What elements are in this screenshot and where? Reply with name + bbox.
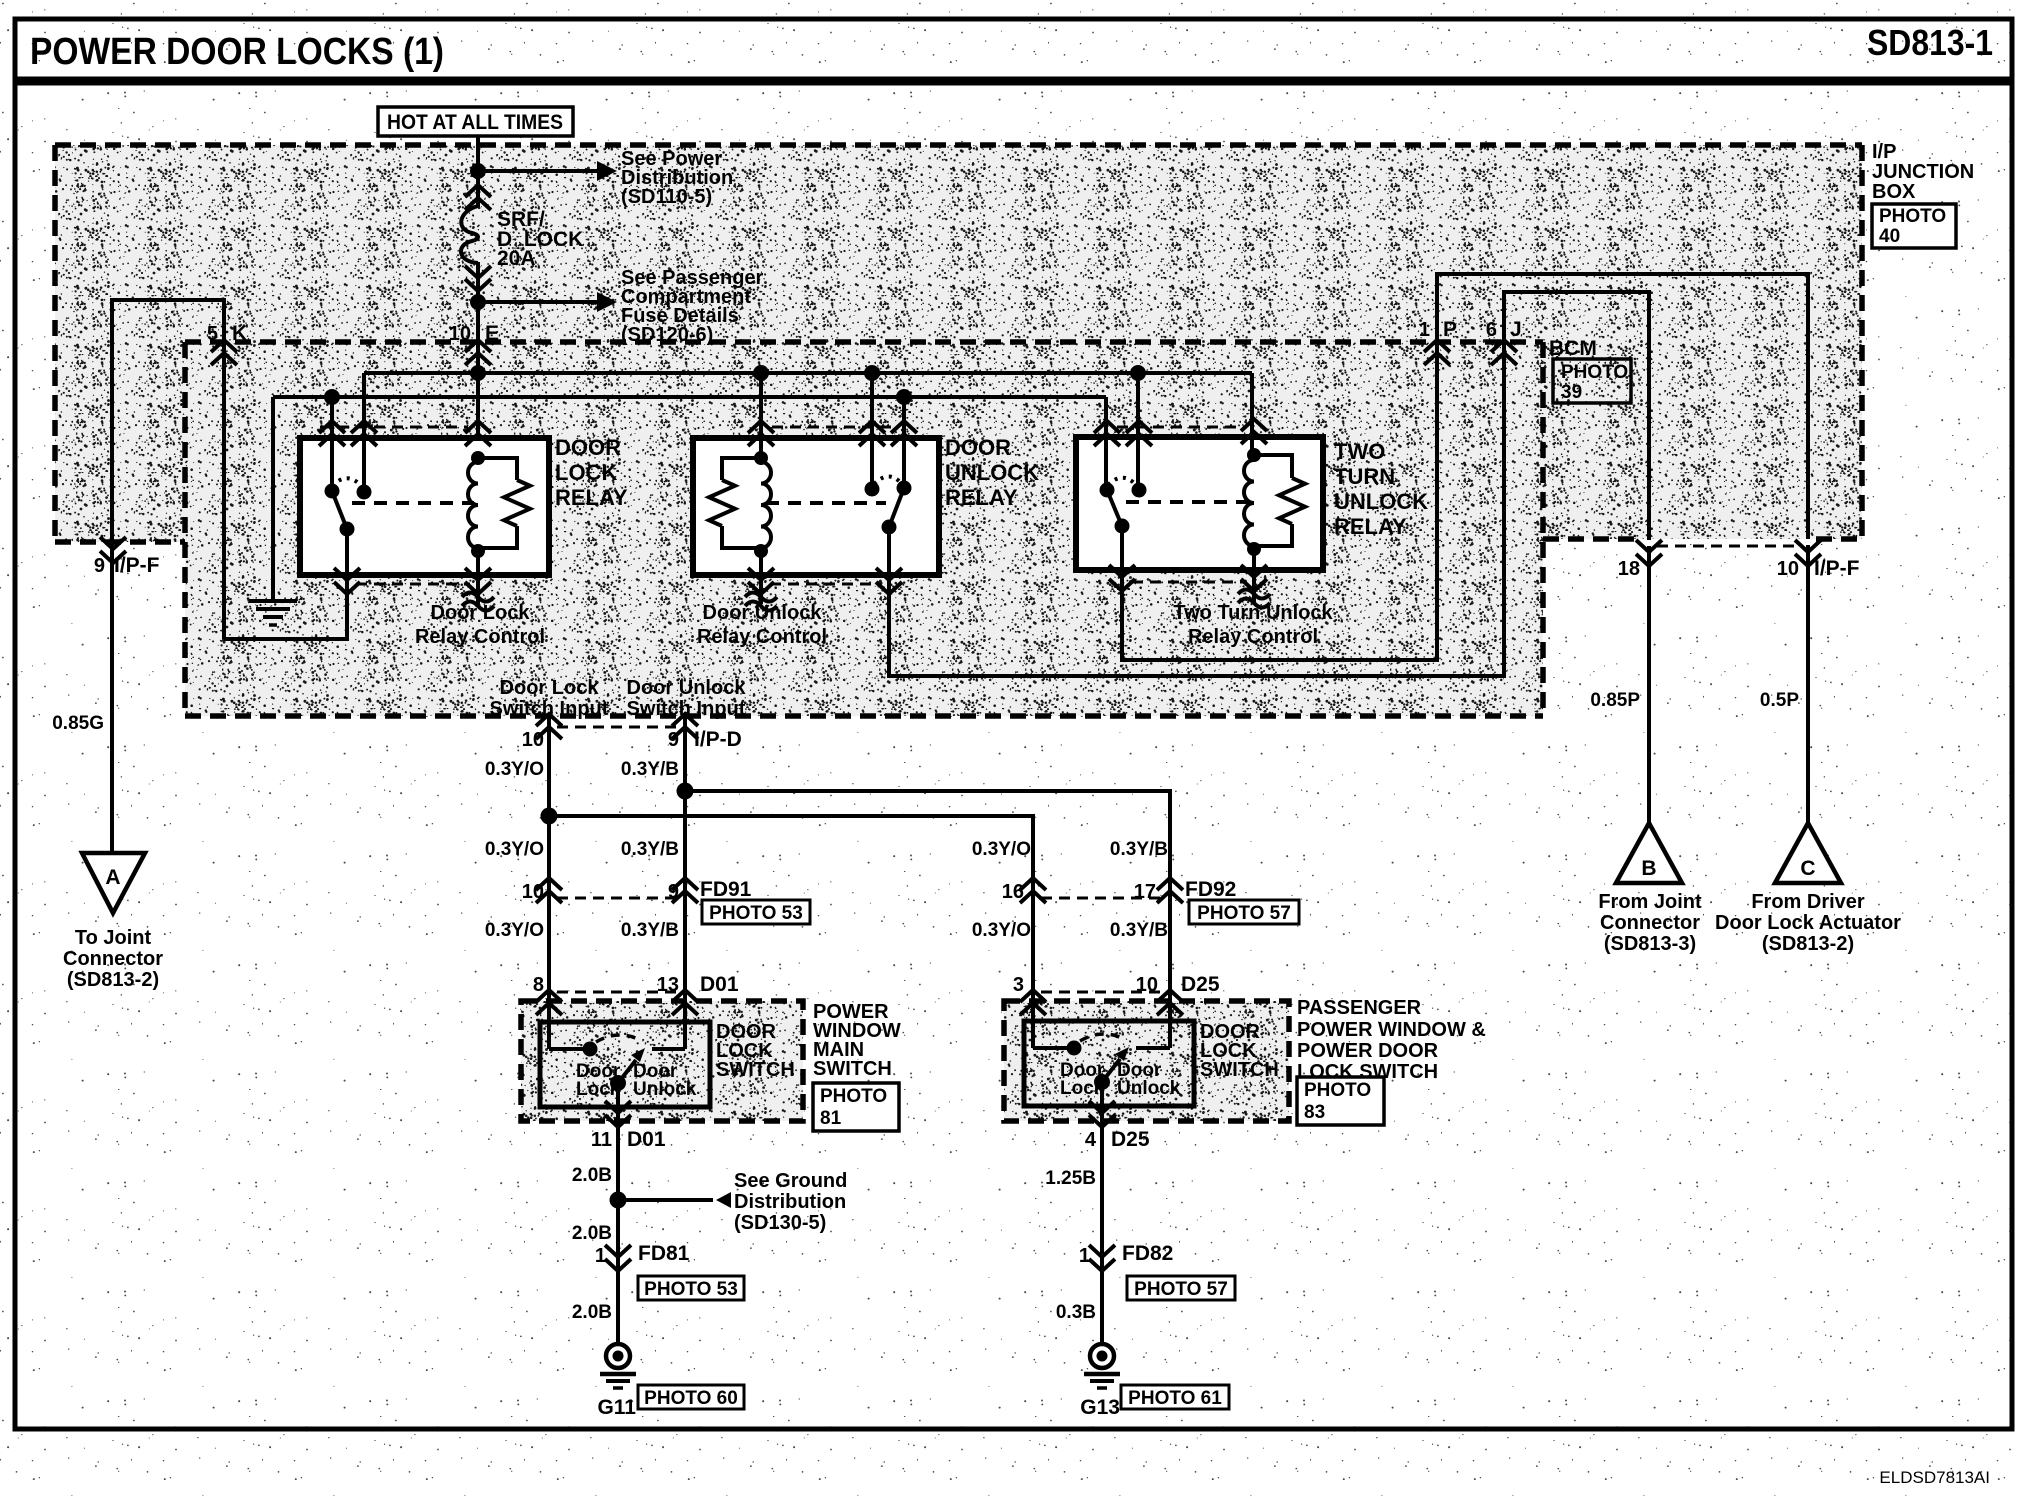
svg-text:To Joint: To Joint [75,927,152,949]
svg-text:G11: G11 [597,1396,636,1419]
svg-text:TWO: TWO [1334,439,1385,464]
svg-text:K: K [232,322,247,345]
svg-text:UNLOCK: UNLOCK [945,460,1039,485]
svg-text:9: 9 [668,881,679,903]
svg-text:0.3Y/B: 0.3Y/B [621,759,679,780]
svg-text:0.3Y/B: 0.3Y/B [1110,839,1168,860]
svg-text:Unlock: Unlock [633,1079,697,1100]
svg-text:Distribution: Distribution [734,1191,846,1213]
svg-text:SWITCH: SWITCH [1200,1059,1279,1081]
svg-text:2.0B: 2.0B [572,1223,612,1244]
svg-text:17: 17 [1134,881,1156,903]
svg-text:BOX: BOX [1872,181,1916,203]
svg-text:Relay Control: Relay Control [1188,626,1318,648]
svg-text:(SD813-2): (SD813-2) [67,969,159,991]
svg-text:J: J [1510,318,1522,341]
svg-text:RELAY: RELAY [945,485,1018,510]
svg-text:(SD110-5): (SD110-5) [621,186,712,208]
svg-text:B: B [1641,857,1656,880]
svg-text:DOOR: DOOR [945,435,1011,460]
svg-text:0.3Y/O: 0.3Y/O [485,759,544,780]
svg-text:D25: D25 [1181,973,1220,996]
svg-text:Connector: Connector [1600,912,1700,934]
svg-text:10: 10 [1777,558,1799,580]
svg-text:Relay Control: Relay Control [697,626,827,648]
svg-text:I/P-D: I/P-D [694,728,742,751]
svg-text:Connector: Connector [63,948,163,970]
svg-text:LOCK: LOCK [555,460,617,485]
svg-text:HOT AT ALL TIMES: HOT AT ALL TIMES [387,111,563,134]
svg-text:0.3Y/O: 0.3Y/O [972,839,1031,860]
svg-text:D01: D01 [700,973,739,996]
svg-text:I/P-F: I/P-F [114,554,160,577]
svg-text:Two Turn Unlock: Two Turn Unlock [1173,602,1333,624]
svg-text:0.85P: 0.85P [1590,690,1640,711]
svg-text:81: 81 [820,1108,842,1129]
svg-text:SWITCH: SWITCH [813,1058,892,1080]
svg-text:PHOTO 53: PHOTO 53 [709,903,803,924]
svg-text:P: P [1443,318,1457,341]
svg-text:JUNCTION: JUNCTION [1872,161,1974,183]
svg-text:E: E [485,322,499,345]
svg-text:C: C [1800,857,1815,880]
svg-text:PHOTO 61: PHOTO 61 [1128,1388,1222,1409]
svg-text:ELDSD7813AI: ELDSD7813AI [1879,1468,1990,1487]
svg-text:D25: D25 [1111,1128,1150,1151]
svg-text:RELAY: RELAY [555,485,628,510]
svg-text:40: 40 [1879,226,1900,247]
svg-text:13: 13 [657,974,679,996]
svg-text:SD813-1: SD813-1 [1867,22,1993,63]
svg-text:4: 4 [1085,1129,1097,1151]
svg-text:1.25B: 1.25B [1045,1168,1096,1189]
svg-text:6: 6 [1486,319,1497,341]
svg-text:0.3B: 0.3B [1056,1302,1096,1323]
svg-text:1: 1 [595,1245,606,1267]
svg-text:(SD130-5): (SD130-5) [734,1212,826,1234]
svg-text:8: 8 [533,974,544,996]
svg-text:POWER DOOR LOCKS (1): POWER DOOR LOCKS (1) [30,31,444,73]
svg-text:(SD813-2): (SD813-2) [1762,933,1854,955]
svg-text:Door Lock Actuator: Door Lock Actuator [1715,912,1901,934]
svg-text:1: 1 [1419,319,1430,341]
svg-text:2.0B: 2.0B [572,1302,612,1323]
svg-text:Door Lock: Door Lock [431,602,531,624]
svg-text:18: 18 [1618,558,1640,580]
svg-text:POWER WINDOW &: POWER WINDOW & [1297,1019,1486,1041]
svg-text:PHOTO 60: PHOTO 60 [644,1388,738,1409]
svg-text:PHOTO 57: PHOTO 57 [1197,903,1291,924]
svg-text:DOOR: DOOR [555,435,621,460]
svg-text:RELAY: RELAY [1334,514,1407,539]
svg-text:(SD120-6): (SD120-6) [621,324,713,346]
svg-text:FD92: FD92 [1185,878,1236,901]
svg-text:FD91: FD91 [700,878,752,901]
svg-text:(SD813-3): (SD813-3) [1604,933,1696,955]
svg-text:PHOTO: PHOTO [1561,362,1628,383]
svg-text:9: 9 [668,729,679,751]
svg-text:0.3Y/B: 0.3Y/B [621,920,679,941]
svg-text:0.3Y/B: 0.3Y/B [1110,920,1168,941]
svg-text:Lock: Lock [1060,1078,1105,1099]
svg-text:0.3Y/B: 0.3Y/B [621,839,679,860]
svg-text:10: 10 [1136,974,1158,996]
svg-text:BCM: BCM [1549,337,1597,360]
svg-text:39: 39 [1561,382,1582,403]
svg-text:D01: D01 [627,1128,666,1151]
svg-text:5: 5 [207,323,218,345]
svg-text:PHOTO: PHOTO [1304,1080,1371,1101]
svg-text:9: 9 [94,555,105,577]
svg-text:20A: 20A [497,247,536,270]
svg-text:From Driver: From Driver [1751,891,1865,913]
svg-text:FD82: FD82 [1122,1242,1173,1265]
svg-text:SWITCH: SWITCH [716,1059,795,1081]
svg-text:PHOTO: PHOTO [820,1086,887,1107]
svg-text:I/P: I/P [1872,141,1896,163]
svg-text:PHOTO: PHOTO [1879,206,1946,227]
svg-text:UNLOCK: UNLOCK [1334,489,1428,514]
svg-text:Door Unlock: Door Unlock [627,677,747,699]
svg-text:G13: G13 [1080,1396,1120,1419]
svg-text:0.85G: 0.85G [52,713,104,734]
svg-text:0.3Y/O: 0.3Y/O [485,920,544,941]
svg-text:10: 10 [522,729,544,751]
svg-text:PASSENGER: PASSENGER [1297,997,1422,1019]
svg-text:3: 3 [1013,974,1024,996]
svg-text:See Ground: See Ground [734,1170,847,1192]
svg-text:From Joint: From Joint [1598,891,1702,913]
svg-text:16: 16 [1002,881,1024,903]
svg-text:PHOTO 53: PHOTO 53 [644,1279,738,1300]
svg-text:2.0B: 2.0B [572,1165,612,1186]
svg-text:I/P-F: I/P-F [1814,557,1860,580]
svg-text:0.3Y/O: 0.3Y/O [485,839,544,860]
svg-text:Door Unlock: Door Unlock [703,602,823,624]
svg-text:10: 10 [449,323,471,345]
svg-text:0.5P: 0.5P [1760,690,1799,711]
svg-text:10: 10 [522,881,544,903]
svg-text:83: 83 [1304,1102,1325,1123]
svg-text:Door Lock: Door Lock [500,677,600,699]
svg-text:1: 1 [1079,1245,1090,1267]
svg-text:Unlock: Unlock [1117,1078,1181,1099]
svg-text:FD81: FD81 [638,1242,690,1265]
svg-text:A: A [105,866,120,889]
svg-text:Lock: Lock [576,1079,621,1100]
svg-text:Relay Control: Relay Control [415,626,545,648]
svg-text:0.3Y/O: 0.3Y/O [972,920,1031,941]
svg-text:PHOTO 57: PHOTO 57 [1134,1279,1228,1300]
svg-text:POWER DOOR: POWER DOOR [1297,1040,1439,1062]
svg-text:11: 11 [591,1129,612,1151]
svg-text:TURN: TURN [1334,464,1395,489]
